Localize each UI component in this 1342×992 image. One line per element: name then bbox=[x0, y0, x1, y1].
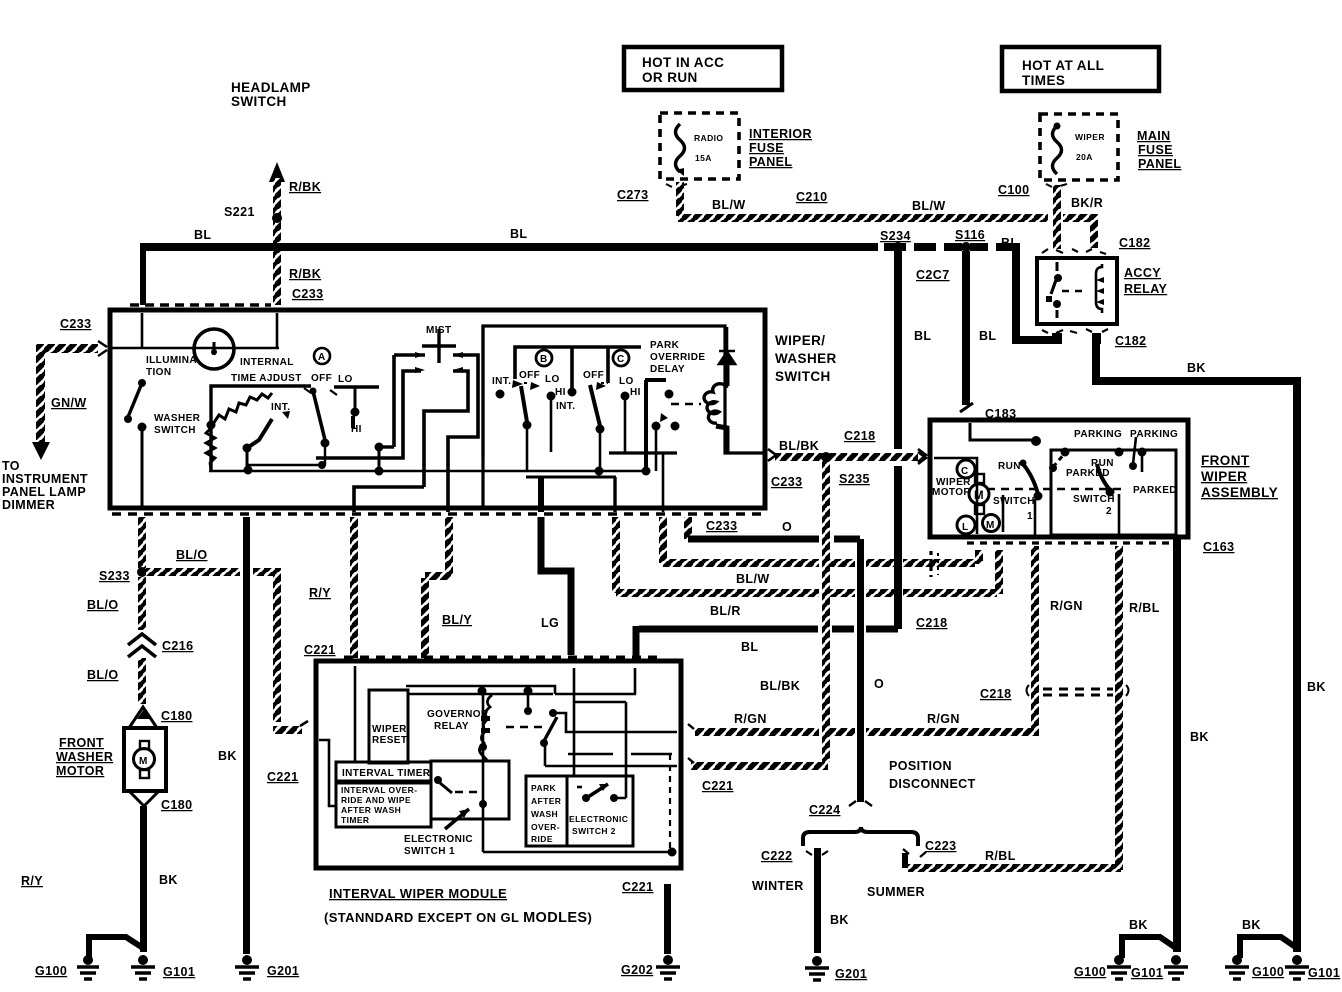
svg-text:20A: 20A bbox=[1076, 152, 1093, 162]
svg-text:RELAY: RELAY bbox=[434, 721, 469, 732]
svg-text:C218: C218 bbox=[980, 687, 1011, 701]
svg-text:BK/R: BK/R bbox=[1071, 196, 1103, 210]
svg-text:C221: C221 bbox=[622, 880, 653, 894]
svg-text:M: M bbox=[974, 490, 984, 502]
svg-text:SWITCH 1: SWITCH 1 bbox=[404, 846, 455, 857]
svg-text:MOTOR: MOTOR bbox=[56, 764, 104, 778]
svg-text:WIPER: WIPER bbox=[1201, 469, 1247, 484]
svg-text:R/BL: R/BL bbox=[985, 849, 1016, 863]
svg-text:S233: S233 bbox=[99, 569, 130, 583]
svg-text:MOTOR: MOTOR bbox=[932, 487, 971, 498]
svg-text:RIDE AND WIPE: RIDE AND WIPE bbox=[341, 795, 411, 805]
svg-text:OFF: OFF bbox=[519, 370, 540, 381]
svg-text:BL/O: BL/O bbox=[87, 668, 118, 682]
svg-text:R/Y: R/Y bbox=[309, 586, 331, 600]
svg-text:RUN: RUN bbox=[998, 461, 1021, 472]
svg-text:BL/Y: BL/Y bbox=[442, 613, 472, 627]
svg-text:C: C bbox=[961, 466, 969, 477]
svg-text:INTERIOR: INTERIOR bbox=[749, 127, 812, 141]
svg-text:LO: LO bbox=[619, 376, 634, 387]
svg-text:WASHER: WASHER bbox=[154, 413, 201, 424]
svg-text:LO: LO bbox=[338, 374, 353, 385]
svg-text:OFF: OFF bbox=[583, 370, 604, 381]
svg-text:ILLUMINA: ILLUMINA bbox=[146, 355, 197, 366]
svg-text:M: M bbox=[986, 520, 995, 531]
svg-text:BK: BK bbox=[159, 873, 178, 887]
svg-text:BL/W: BL/W bbox=[736, 572, 770, 586]
svg-text:WASH: WASH bbox=[531, 809, 558, 819]
svg-text:BK: BK bbox=[1307, 680, 1326, 694]
svg-text:G101: G101 bbox=[163, 965, 195, 979]
svg-text:HI: HI bbox=[630, 387, 641, 398]
svg-text:C: C bbox=[617, 354, 625, 365]
svg-text:B: B bbox=[540, 354, 548, 365]
svg-text:R/GN: R/GN bbox=[1050, 599, 1083, 613]
svg-text:C218: C218 bbox=[916, 616, 947, 630]
svg-text:S234: S234 bbox=[880, 229, 911, 243]
svg-text:INTERNAL: INTERNAL bbox=[240, 357, 294, 368]
svg-text:C222: C222 bbox=[761, 849, 792, 863]
svg-text:C163: C163 bbox=[1203, 540, 1234, 554]
svg-text:WASHER: WASHER bbox=[775, 351, 837, 366]
svg-text:HI: HI bbox=[555, 387, 566, 398]
svg-text:C233: C233 bbox=[292, 287, 323, 301]
svg-text:TIMES: TIMES bbox=[1022, 73, 1065, 88]
svg-text:R/Y: R/Y bbox=[21, 874, 43, 888]
svg-text:HOT IN ACC: HOT IN ACC bbox=[642, 55, 724, 70]
svg-text:C223: C223 bbox=[925, 839, 956, 853]
svg-text:SWITCH: SWITCH bbox=[993, 496, 1035, 507]
svg-text:BL/BK: BL/BK bbox=[779, 439, 819, 453]
svg-text:RADIO: RADIO bbox=[694, 133, 723, 143]
svg-text:C182: C182 bbox=[1119, 236, 1150, 250]
svg-text:C216: C216 bbox=[162, 639, 193, 653]
svg-text:PANEL: PANEL bbox=[1138, 157, 1181, 171]
svg-text:S221: S221 bbox=[224, 205, 255, 219]
svg-text:WASHER: WASHER bbox=[56, 750, 113, 764]
svg-text:ASSEMBLY: ASSEMBLY bbox=[1201, 485, 1278, 500]
svg-text:OVER-: OVER- bbox=[531, 822, 560, 832]
svg-text:OFF: OFF bbox=[311, 373, 332, 384]
svg-text:G100: G100 bbox=[35, 964, 67, 978]
svg-text:WINTER: WINTER bbox=[752, 879, 804, 893]
svg-text:O: O bbox=[782, 520, 792, 534]
svg-text:HOT AT ALL: HOT AT ALL bbox=[1022, 58, 1104, 73]
svg-text:BK: BK bbox=[218, 749, 237, 763]
svg-text:FRONT: FRONT bbox=[59, 736, 104, 750]
svg-text:SUMMER: SUMMER bbox=[867, 885, 925, 899]
svg-text:TO: TO bbox=[2, 459, 20, 473]
svg-text:BL: BL bbox=[194, 228, 211, 242]
svg-text:O: O bbox=[874, 677, 884, 691]
svg-text:LO: LO bbox=[545, 374, 560, 385]
svg-text:GOVERNOR: GOVERNOR bbox=[427, 709, 489, 720]
svg-text:INTERVAL OVER-: INTERVAL OVER- bbox=[341, 785, 417, 795]
svg-text:SWITCH 2: SWITCH 2 bbox=[572, 826, 616, 836]
svg-text:R/GN: R/GN bbox=[927, 712, 960, 726]
svg-text:C233: C233 bbox=[706, 519, 737, 533]
svg-text:INSTRUMENT: INSTRUMENT bbox=[2, 472, 88, 486]
svg-text:BL: BL bbox=[914, 329, 931, 343]
svg-text:PARK: PARK bbox=[531, 783, 557, 793]
svg-text:PANEL LAMP: PANEL LAMP bbox=[2, 485, 86, 499]
svg-text:BL/O: BL/O bbox=[176, 548, 207, 562]
svg-text:OVERRIDE: OVERRIDE bbox=[650, 352, 705, 363]
svg-text:1: 1 bbox=[1027, 511, 1033, 522]
svg-text:BL: BL bbox=[979, 329, 996, 343]
svg-text:WIPER: WIPER bbox=[1075, 132, 1105, 142]
svg-text:G100: G100 bbox=[1252, 965, 1284, 979]
svg-text:DIMMER: DIMMER bbox=[2, 498, 55, 512]
svg-text:BL: BL bbox=[1001, 236, 1018, 250]
svg-text:(STANNDARD EXCEPT ON GL MODLES: (STANNDARD EXCEPT ON GL MODLES) bbox=[324, 910, 592, 926]
svg-text:G202: G202 bbox=[621, 963, 653, 977]
svg-text:LG: LG bbox=[541, 616, 559, 630]
svg-text:TIMER: TIMER bbox=[341, 815, 369, 825]
svg-text:BL/W: BL/W bbox=[912, 199, 946, 213]
svg-text:FUSE: FUSE bbox=[1138, 143, 1173, 157]
svg-text:GN/W: GN/W bbox=[51, 396, 87, 410]
svg-text:BK: BK bbox=[1242, 918, 1261, 932]
svg-text:HI: HI bbox=[351, 424, 362, 435]
svg-text:DISCONNECT: DISCONNECT bbox=[889, 777, 976, 791]
svg-text:G201: G201 bbox=[267, 964, 299, 978]
svg-text:R/BK: R/BK bbox=[289, 180, 321, 194]
svg-text:C210: C210 bbox=[796, 190, 827, 204]
svg-text:PARKING: PARKING bbox=[1074, 429, 1122, 440]
svg-text:C218: C218 bbox=[844, 429, 875, 443]
svg-text:WIPER: WIPER bbox=[372, 724, 407, 735]
svg-text:BL: BL bbox=[510, 227, 527, 241]
svg-text:AFTER: AFTER bbox=[531, 796, 561, 806]
svg-text:TION: TION bbox=[146, 367, 172, 378]
svg-text:INT.: INT. bbox=[492, 376, 511, 387]
svg-text:RESET: RESET bbox=[372, 735, 407, 746]
svg-text:G201: G201 bbox=[835, 967, 867, 981]
svg-text:WIPER/: WIPER/ bbox=[775, 333, 825, 348]
svg-text:R/GN: R/GN bbox=[734, 712, 767, 726]
svg-text:TIME AJDUST: TIME AJDUST bbox=[231, 373, 302, 384]
svg-text:C233: C233 bbox=[60, 317, 91, 331]
svg-text:FRONT: FRONT bbox=[1201, 453, 1250, 468]
svg-text:A: A bbox=[318, 352, 326, 363]
svg-text:BK: BK bbox=[1129, 918, 1148, 932]
svg-text:HEADLAMP: HEADLAMP bbox=[231, 80, 311, 95]
svg-text:POSITION: POSITION bbox=[889, 759, 952, 773]
svg-text:MAIN: MAIN bbox=[1137, 129, 1171, 143]
svg-text:BL: BL bbox=[741, 640, 758, 654]
svg-text:PARKED: PARKED bbox=[1133, 485, 1177, 496]
svg-text:G101: G101 bbox=[1131, 966, 1163, 980]
svg-text:SWITCH: SWITCH bbox=[231, 94, 287, 109]
svg-text:R/BK: R/BK bbox=[289, 267, 321, 281]
svg-text:G101: G101 bbox=[1308, 966, 1340, 980]
svg-text:ELECTRONIC: ELECTRONIC bbox=[404, 834, 473, 845]
svg-text:C221: C221 bbox=[702, 779, 733, 793]
svg-text:INTERVAL TIMER: INTERVAL TIMER bbox=[342, 768, 431, 779]
svg-text:PARK: PARK bbox=[650, 340, 680, 351]
svg-text:C221: C221 bbox=[267, 770, 298, 784]
svg-text:BK: BK bbox=[830, 913, 849, 927]
svg-text:SWITCH: SWITCH bbox=[775, 369, 831, 384]
svg-text:C180: C180 bbox=[161, 709, 192, 723]
svg-text:2: 2 bbox=[1106, 506, 1112, 517]
svg-text:DELAY: DELAY bbox=[650, 364, 685, 375]
svg-text:C180: C180 bbox=[161, 798, 192, 812]
svg-text:S235: S235 bbox=[839, 472, 870, 486]
svg-text:BK: BK bbox=[1190, 730, 1209, 744]
svg-text:PANEL: PANEL bbox=[749, 155, 792, 169]
svg-text:C233: C233 bbox=[771, 475, 802, 489]
svg-text:L: L bbox=[962, 522, 969, 533]
svg-text:INTERVAL WIPER MODULE: INTERVAL WIPER MODULE bbox=[329, 886, 507, 901]
svg-text:RIDE: RIDE bbox=[531, 834, 553, 844]
svg-text:OR RUN: OR RUN bbox=[642, 70, 698, 85]
svg-text:ACCY: ACCY bbox=[1124, 266, 1161, 280]
svg-text:ELECTRONIC: ELECTRONIC bbox=[569, 814, 628, 824]
svg-text:C273: C273 bbox=[617, 188, 648, 202]
svg-text:INT.: INT. bbox=[556, 401, 575, 412]
svg-text:C224: C224 bbox=[809, 803, 840, 817]
svg-text:C182: C182 bbox=[1115, 334, 1146, 348]
svg-text:R/BL: R/BL bbox=[1129, 601, 1160, 615]
svg-text:RELAY: RELAY bbox=[1124, 282, 1167, 296]
svg-text:PARKING: PARKING bbox=[1130, 429, 1178, 440]
svg-text:BL/W: BL/W bbox=[712, 198, 746, 212]
svg-text:S116: S116 bbox=[955, 228, 985, 242]
svg-text:BL/O: BL/O bbox=[87, 598, 118, 612]
svg-text:AFTER WASH: AFTER WASH bbox=[341, 805, 401, 815]
svg-text:G100: G100 bbox=[1074, 965, 1106, 979]
svg-text:BL/BK: BL/BK bbox=[760, 679, 800, 693]
svg-text:C100: C100 bbox=[998, 183, 1029, 197]
svg-text:BL/R: BL/R bbox=[710, 604, 741, 618]
svg-text:SWITCH: SWITCH bbox=[154, 425, 196, 436]
svg-text:C2C7: C2C7 bbox=[916, 268, 950, 282]
svg-text:FUSE: FUSE bbox=[749, 141, 784, 155]
svg-text:M: M bbox=[139, 756, 148, 767]
svg-text:15A: 15A bbox=[695, 153, 712, 163]
svg-text:C221: C221 bbox=[304, 643, 335, 657]
svg-text:BK: BK bbox=[1187, 361, 1206, 375]
